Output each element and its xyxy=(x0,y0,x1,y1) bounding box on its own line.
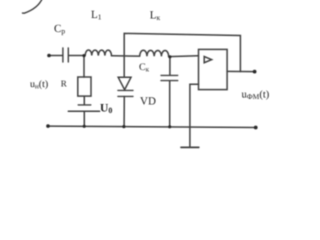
svg-text:uн(t): uн(t) xyxy=(30,79,48,91)
svg-text:U0: U0 xyxy=(100,103,112,116)
svg-text:Cp: Cp xyxy=(54,23,65,36)
svg-text:VD: VD xyxy=(140,95,156,107)
svg-text:Lк: Lк xyxy=(150,10,161,23)
svg-text:L1: L1 xyxy=(91,9,102,22)
svg-text:R: R xyxy=(61,78,67,88)
svg-text:uФМ(t): uФМ(t) xyxy=(242,90,270,102)
svg-text:Cк: Cк xyxy=(139,62,150,74)
